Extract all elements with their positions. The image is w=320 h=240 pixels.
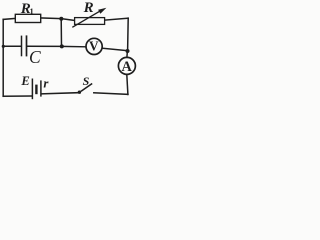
svg-text:C: C xyxy=(29,47,41,67)
node junction top wire xyxy=(59,17,63,21)
wire voltmeter left lead xyxy=(62,45,86,47)
wire bottom-right segment xyxy=(94,93,128,95)
resistor R1 xyxy=(15,14,40,22)
node junction capacitor branch xyxy=(60,44,64,48)
svg-text:r: r xyxy=(43,75,49,90)
switch S xyxy=(78,84,92,94)
wire right vertical upper xyxy=(127,18,130,51)
svg-text:S: S xyxy=(83,74,90,88)
wire top middle segment xyxy=(40,18,77,21)
wire bottom-left segment xyxy=(3,95,32,97)
svg-text:R: R xyxy=(83,0,94,16)
wire voltmeter right lead xyxy=(102,48,126,50)
ammeter A xyxy=(118,57,135,75)
battery E r xyxy=(32,79,41,100)
wire ammeter bottom to corner xyxy=(127,75,128,95)
wire bottom middle segment battery to switch xyxy=(42,93,78,94)
wire top-left lead xyxy=(3,18,16,19)
svg-text:E: E xyxy=(20,74,29,88)
node junction right wire xyxy=(126,49,130,53)
svg-text:V: V xyxy=(89,38,99,53)
rheostat R xyxy=(72,8,106,28)
svg-text:1: 1 xyxy=(30,6,34,16)
svg-text:A: A xyxy=(122,59,133,75)
wire junction to ammeter top xyxy=(126,51,129,57)
node junction left wire xyxy=(2,45,5,48)
voltmeter V xyxy=(86,38,102,54)
wire capacitor right lead to junction xyxy=(27,45,62,47)
capacitor C xyxy=(22,35,27,56)
wire top-right lead xyxy=(104,18,129,20)
wire left vertical xyxy=(2,19,4,96)
wire vertical connector from top wire to capacitor branch xyxy=(60,19,62,46)
wire capacitor left lead xyxy=(3,45,21,47)
